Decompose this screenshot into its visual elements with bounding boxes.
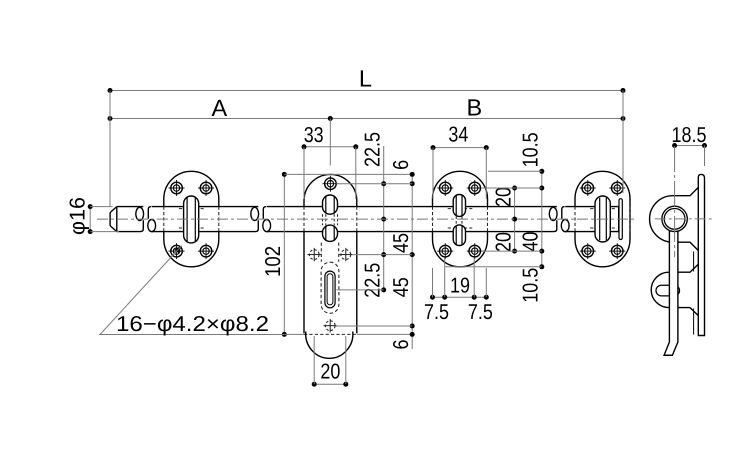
svg-text:10.5: 10.5 bbox=[519, 132, 543, 167]
svg-text:22.5: 22.5 bbox=[361, 132, 385, 167]
svg-text:18.5: 18.5 bbox=[672, 123, 707, 147]
svg-text:20: 20 bbox=[492, 232, 516, 252]
svg-text:B: B bbox=[467, 94, 483, 120]
svg-text:φ16: φ16 bbox=[65, 197, 89, 235]
svg-text:45: 45 bbox=[389, 277, 413, 297]
svg-text:40: 40 bbox=[519, 231, 543, 251]
svg-text:20: 20 bbox=[320, 359, 340, 383]
svg-text:7.5: 7.5 bbox=[424, 300, 449, 324]
svg-text:A: A bbox=[211, 95, 227, 121]
svg-text:19: 19 bbox=[450, 273, 470, 297]
svg-text:6: 6 bbox=[389, 339, 413, 349]
svg-text:16−φ4.2×φ8.2: 16−φ4.2×φ8.2 bbox=[116, 312, 269, 336]
svg-text:33: 33 bbox=[304, 123, 324, 147]
svg-text:L: L bbox=[359, 66, 372, 92]
svg-text:102: 102 bbox=[261, 246, 285, 277]
svg-text:7.5: 7.5 bbox=[468, 300, 493, 324]
svg-text:6: 6 bbox=[389, 160, 413, 170]
svg-text:45: 45 bbox=[389, 233, 413, 253]
svg-text:22.5: 22.5 bbox=[361, 263, 385, 298]
svg-text:20: 20 bbox=[492, 187, 516, 207]
svg-text:34: 34 bbox=[448, 122, 468, 146]
svg-text:10.5: 10.5 bbox=[519, 268, 543, 303]
